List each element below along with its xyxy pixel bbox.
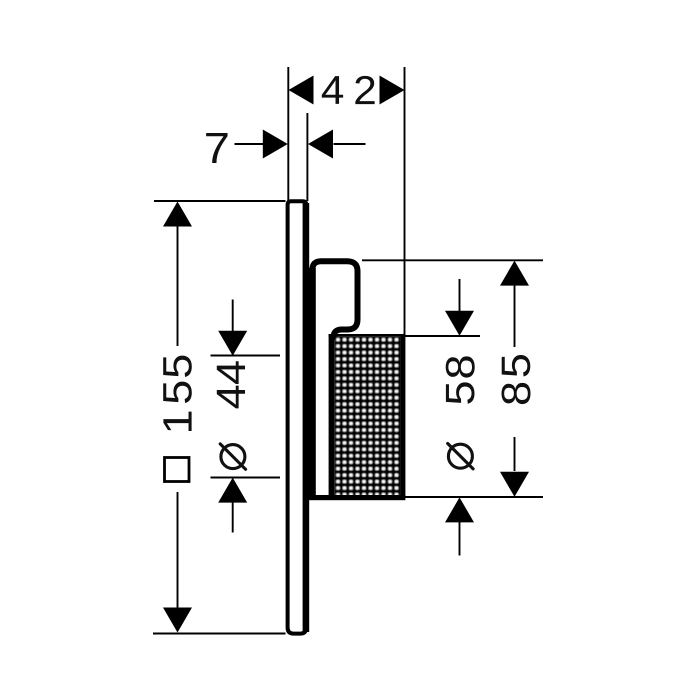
text 7 — [206, 133, 227, 163]
tick y=355.5 (44 top) — [211, 355, 281, 357]
plate right face line — [303, 203, 310, 632]
diameter symbol 58 — [448, 444, 473, 469]
extension line C x=404.5 (42 right) — [404, 67, 406, 336]
text 155 digit 5b — [163, 356, 192, 377]
dimension 44 — [218, 300, 247, 533]
dimension 7 — [235, 130, 366, 159]
knurled grip area — [335, 337, 402, 496]
knurl top edge — [329, 334, 406, 337]
text 44 digit 4b — [217, 361, 245, 384]
text 155 digit 5a — [163, 382, 192, 403]
text 85 digit 8 — [501, 383, 530, 404]
text 85 digit 5 — [502, 355, 531, 376]
knob bottom edge — [309, 495, 406, 500]
tick y=336 (58 top) — [404, 335, 480, 337]
tick y=477.5 (44 bottom) — [211, 477, 281, 479]
knob sleeve left face line — [309, 268, 316, 497]
text 155 digit 1 — [163, 412, 191, 431]
text 42 digit 4 — [322, 76, 343, 104]
knurl right border — [401, 334, 406, 496]
extension line bottom-left y=633.5 — [153, 633, 286, 635]
extension line right y=259.7 (85 top) — [362, 259, 543, 261]
knurl left border — [329, 334, 335, 496]
dimension 58 — [445, 279, 474, 556]
text 44 digit 4a — [217, 386, 245, 409]
dimension 155 — [163, 202, 192, 633]
plate (escutcheon cross-section) — [288, 201, 307, 633]
knob sleeve hook profile — [312, 261, 357, 340]
extension line top-left y=201 — [154, 200, 286, 202]
text 58 digit 5 — [446, 382, 475, 403]
dimension 42 — [289, 76, 405, 105]
extension line B x=307.4 (7 right) — [306, 113, 308, 201]
extension line A x=288 (42 left / 7 left) — [287, 67, 289, 201]
extension line right y=497 (58/85 bottom) — [405, 496, 543, 498]
text 58 digit 8 — [446, 356, 475, 377]
text 42 digit 2 — [355, 76, 374, 104]
dimension 85 — [500, 261, 529, 497]
diameter symbol 44 — [220, 444, 245, 469]
